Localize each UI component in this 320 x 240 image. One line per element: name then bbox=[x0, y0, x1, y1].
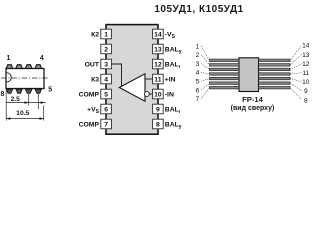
pin box 1 bbox=[101, 29, 112, 39]
op-amp U1 triangle bbox=[119, 74, 145, 101]
svg-text:6: 6 bbox=[104, 106, 108, 113]
FP lead pin 2 bbox=[210, 64, 240, 66]
leader line pin 9 bbox=[290, 83, 302, 91]
pin box 7 bbox=[101, 119, 112, 129]
svg-text:9: 9 bbox=[156, 106, 160, 113]
svg-text:-IN: -IN bbox=[165, 91, 174, 98]
svg-text:5: 5 bbox=[196, 79, 200, 86]
svg-text:К3: К3 bbox=[91, 76, 99, 83]
FP lead pin 10 bbox=[259, 77, 291, 79]
wire OUT pin3 to op-amp bbox=[112, 64, 122, 87]
extension line pin4 bbox=[37, 94, 39, 109]
svg-text:13: 13 bbox=[154, 46, 162, 53]
svg-text:9: 9 bbox=[304, 88, 308, 95]
svg-text:COMP: COMP bbox=[79, 91, 100, 98]
package bottom pin 4 bbox=[35, 89, 41, 93]
FP lead pin 12 bbox=[259, 68, 291, 70]
DIP-14 body bbox=[106, 25, 158, 135]
FP lead pin 4 bbox=[210, 73, 240, 75]
FP lead pin 3 bbox=[210, 68, 240, 70]
FP lead pin 7 bbox=[210, 87, 240, 89]
svg-text:OUT: OUT bbox=[85, 61, 100, 68]
pin box 12 bbox=[153, 59, 164, 69]
FP lead pin 5 bbox=[210, 77, 240, 79]
svg-text:7: 7 bbox=[104, 121, 108, 128]
svg-text:4: 4 bbox=[196, 70, 200, 77]
svg-text:COMP: COMP bbox=[79, 121, 100, 128]
package body outline bbox=[6, 69, 44, 89]
centerline bbox=[1, 77, 48, 79]
svg-text:3: 3 bbox=[196, 61, 200, 68]
svg-text:1: 1 bbox=[196, 43, 200, 50]
svg-text:FP-14: FP-14 bbox=[242, 95, 263, 104]
leader line pin 12 bbox=[290, 64, 302, 70]
leader line pin 10 bbox=[290, 79, 302, 82]
pin box 10 bbox=[153, 89, 164, 99]
extension line pin3 bbox=[28, 94, 30, 106]
svg-text:1: 1 bbox=[104, 31, 108, 38]
FP lead pin 11 bbox=[259, 73, 291, 75]
leader line pin 1 bbox=[201, 46, 209, 60]
package top pin 2 bbox=[16, 65, 23, 69]
FP lead pin 8 bbox=[259, 87, 291, 89]
svg-text:13: 13 bbox=[302, 52, 310, 59]
extension line left bbox=[5, 91, 7, 121]
pin box 11 bbox=[153, 74, 164, 84]
FP lead pin 6 bbox=[210, 82, 240, 84]
pin box 4 bbox=[101, 74, 112, 84]
leader line pin 3 bbox=[201, 64, 209, 70]
svg-text:8: 8 bbox=[304, 97, 308, 104]
svg-text:4: 4 bbox=[40, 55, 44, 62]
wire -IN pin10 bbox=[149, 93, 153, 95]
leader line pin 2 bbox=[201, 55, 209, 65]
svg-text:14: 14 bbox=[154, 31, 162, 38]
svg-text:1: 1 bbox=[7, 55, 11, 62]
package bottom pin 2 bbox=[16, 89, 22, 93]
pin box 13 bbox=[153, 44, 164, 54]
svg-text:8: 8 bbox=[156, 121, 160, 128]
leader line pin 6 bbox=[201, 83, 209, 90]
svg-text:+IN: +IN bbox=[165, 76, 176, 83]
leader line pin 13 bbox=[290, 55, 302, 65]
FP lead pin 1 bbox=[210, 59, 240, 61]
package bottom pin 1 bbox=[6, 89, 12, 93]
svg-text:5: 5 bbox=[48, 86, 52, 93]
svg-text:14: 14 bbox=[302, 43, 310, 50]
svg-text:3: 3 bbox=[104, 61, 108, 68]
op-amp inversion bubble bbox=[145, 92, 150, 97]
dimension line 10.5 bbox=[6, 118, 44, 120]
leader line pin 5 bbox=[201, 79, 209, 82]
pin box 8 bbox=[153, 119, 164, 129]
leader line pin 14 bbox=[290, 45, 302, 60]
package bottom pin 3 bbox=[26, 89, 32, 93]
svg-text:10: 10 bbox=[154, 91, 162, 98]
svg-text:7: 7 bbox=[196, 96, 200, 103]
svg-text:10.5: 10.5 bbox=[16, 110, 29, 117]
FP lead pin 13 bbox=[259, 64, 291, 66]
leader line pin 4 bbox=[201, 72, 209, 74]
leader line pin 8 bbox=[290, 88, 302, 100]
svg-text:2.5: 2.5 bbox=[11, 96, 20, 103]
FP lead pin 14 bbox=[259, 59, 291, 61]
package top pin 4 bbox=[35, 65, 42, 69]
pin box 9 bbox=[153, 104, 164, 114]
svg-text:11: 11 bbox=[302, 70, 309, 77]
key notch arc bbox=[7, 73, 12, 82]
wire +IN pin11 bbox=[145, 78, 153, 80]
pin box 5 bbox=[101, 89, 112, 99]
svg-text:6: 6 bbox=[196, 87, 200, 94]
svg-text:2: 2 bbox=[104, 46, 108, 53]
svg-text:5: 5 bbox=[104, 91, 108, 98]
svg-text:4: 4 bbox=[104, 76, 108, 83]
svg-text:К2: К2 bbox=[91, 31, 99, 38]
pin box 2 bbox=[101, 44, 112, 54]
leader line pin 11 bbox=[290, 73, 302, 74]
pin box 14 bbox=[153, 29, 164, 39]
FP lead pin 9 bbox=[259, 82, 291, 84]
package top pin 3 bbox=[25, 65, 32, 69]
svg-text:105УД1, К105УД1: 105УД1, К105УД1 bbox=[154, 4, 243, 15]
package top pin 1 bbox=[6, 65, 13, 69]
pin box 3 bbox=[101, 59, 112, 69]
dimension line 2.5 bbox=[6, 102, 46, 104]
svg-text:8: 8 bbox=[0, 91, 4, 98]
extension line right bbox=[43, 106, 45, 121]
pin box 6 bbox=[101, 104, 112, 114]
leader line pin 7 bbox=[201, 88, 209, 99]
svg-text:12: 12 bbox=[154, 61, 162, 68]
svg-text:11: 11 bbox=[154, 76, 161, 83]
FP-14 body bbox=[239, 58, 259, 92]
svg-text:(вид сверху): (вид сверху) bbox=[231, 105, 275, 112]
svg-text:12: 12 bbox=[302, 61, 310, 68]
svg-text:2: 2 bbox=[196, 52, 200, 59]
svg-text:10: 10 bbox=[302, 79, 310, 86]
